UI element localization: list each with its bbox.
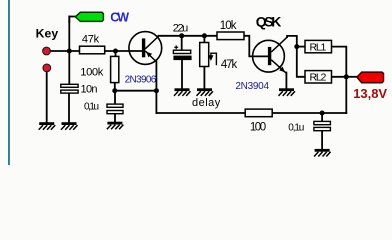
svg-text:0,1u: 0,1u bbox=[84, 102, 99, 113]
wire top rail bbox=[159, 35, 218, 37]
connector CW (green tag) bbox=[75, 12, 103, 21]
svg-text:RL1: RL1 bbox=[310, 41, 327, 53]
svg-text:47k: 47k bbox=[221, 59, 238, 71]
terminal Key sleeve (red) bbox=[43, 64, 51, 72]
wire node C horizontal bbox=[115, 90, 157, 92]
junction node D (Q2 collector/relays) bbox=[294, 44, 299, 49]
svg-text:CW: CW bbox=[110, 11, 129, 25]
wire 10n bottom to ground bbox=[68, 93, 70, 123]
wire 10k to Q2 base bbox=[244, 36, 268, 57]
transistor Q1 2N3906 bbox=[129, 32, 162, 65]
wire node D down to RL2 bbox=[297, 47, 305, 77]
wire 0,1u right top bbox=[321, 113, 323, 121]
junction node A (Key/CW) bbox=[67, 49, 72, 54]
wire RL2 right bbox=[332, 76, 347, 78]
capacitor C4 0,1u right bbox=[314, 121, 331, 130]
junction node C (100k/0,1u) bbox=[112, 88, 117, 93]
resistor R4 10k horizontal bbox=[217, 32, 244, 40]
wire Q2 collector to node D bbox=[287, 36, 297, 47]
junction node B (R1/100k/Q1 base) bbox=[113, 49, 118, 54]
svg-text:10n: 10n bbox=[81, 84, 98, 96]
ground (0,1u right) bbox=[314, 150, 331, 156]
wire 0,1u right bottom to ground bbox=[321, 131, 323, 150]
wire CW vertical down to 10n bbox=[68, 17, 70, 85]
wire 0,1u left top bbox=[114, 91, 116, 104]
svg-text:100k: 100k bbox=[80, 67, 103, 79]
wire RL1 right bbox=[332, 47, 347, 113]
svg-text:2N3906: 2N3906 bbox=[125, 74, 157, 85]
svg-text:RL2: RL2 bbox=[310, 72, 327, 84]
wire Q2 emitter to ground bbox=[285, 73, 287, 90]
terminal Key tip (red) bbox=[43, 47, 51, 55]
wire 22u bottom to ground bbox=[181, 60, 183, 89]
resistor R1 47k horizontal bbox=[80, 46, 105, 54]
ground (10n) bbox=[61, 124, 78, 130]
ground (Key sleeve) bbox=[39, 124, 56, 130]
svg-text:QSK: QSK bbox=[256, 13, 282, 29]
svg-text:22u: 22u bbox=[173, 22, 188, 34]
ground (47k delay pot) bbox=[197, 90, 214, 96]
wire node D to RL1 bbox=[297, 46, 305, 48]
capacitor C3 22u electrolytic bbox=[173, 45, 191, 60]
capacitor C1 10n bbox=[61, 84, 78, 93]
wire 0,1u left bottom to ground bbox=[114, 114, 116, 123]
junction 0,1u right on rail bbox=[320, 111, 325, 116]
connector 13.8V (red tag) bbox=[357, 72, 384, 83]
wire CW stub bbox=[69, 17, 75, 23]
wire 47k vertical bottom to ground bbox=[203, 67, 205, 90]
junction node E (13.8V) bbox=[344, 74, 349, 79]
relay coil RL2 bbox=[305, 71, 332, 84]
wire Key terminal to node A bbox=[47, 50, 80, 52]
junction 47k on rail bbox=[202, 33, 207, 38]
trimmer wiper arrow of delay pot bbox=[209, 53, 216, 65]
relay coil RL1 bbox=[305, 40, 332, 53]
svg-text:47k: 47k bbox=[82, 34, 100, 46]
wire R1 to Q1 base bbox=[105, 50, 143, 52]
wire 13.8V connector stub bbox=[346, 76, 357, 78]
svg-text:Key: Key bbox=[36, 27, 59, 41]
resistor R2 100k vertical bbox=[111, 56, 119, 82]
svg-text:0,1u: 0,1u bbox=[288, 122, 304, 133]
wire 47k vertical top bbox=[203, 36, 205, 43]
wire bottom 13.8V rail bbox=[156, 112, 346, 114]
ground (0,1u left) bbox=[107, 123, 124, 129]
wire Key sleeve down to ground bbox=[46, 69, 48, 123]
resistor R5 100 horizontal bbox=[245, 109, 272, 117]
svg-text:2N3904: 2N3904 bbox=[235, 81, 269, 92]
ground (Q2 emitter) bbox=[279, 90, 296, 96]
svg-text:13,8V: 13,8V bbox=[353, 86, 387, 101]
resistor R3 47k vertical (delay pot) bbox=[200, 43, 209, 67]
ground (22u) bbox=[174, 90, 191, 96]
transistor Q2 2N3904 bbox=[253, 37, 288, 73]
capacitor C2 0,1u left bbox=[107, 104, 123, 114]
wire Q1 collector vertical bbox=[155, 62, 157, 114]
svg-text:100: 100 bbox=[250, 122, 266, 134]
wire 22u top bbox=[181, 36, 183, 50]
junction node C2 (Q1 collector) bbox=[154, 88, 159, 93]
svg-text:10k: 10k bbox=[220, 20, 237, 32]
svg-text:delay: delay bbox=[192, 97, 221, 109]
junction 22u on rail bbox=[179, 33, 184, 38]
left page border line bbox=[8, 0, 10, 165]
wire node B to 100k top bbox=[115, 51, 117, 56]
wire 100k bottom bbox=[114, 83, 116, 91]
